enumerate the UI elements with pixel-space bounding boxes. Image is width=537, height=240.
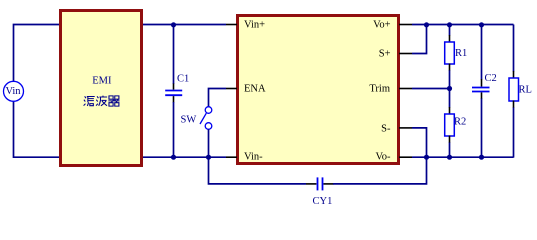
wire: left rail top (source to EMI) — [14, 25, 60, 82]
svg-text:EMI: EMI — [92, 76, 112, 87]
svg-text:S-: S- — [381, 124, 391, 135]
capacitor CY1 — [306, 183, 316, 185]
pin stub Vin- — [226, 156, 237, 158]
node: S- on Vo- rail — [424, 155, 429, 160]
svg-text:Vo+: Vo+ — [373, 20, 390, 31]
wire: Vo+ rail — [412, 24, 514, 26]
svg-text:S+: S+ — [379, 49, 391, 60]
node: R1 top — [447, 22, 452, 27]
pin stub Vo+ — [399, 24, 412, 26]
DC/DC converter box U1 — [238, 16, 399, 164]
EMI filter box — [61, 11, 142, 166]
wire: switch to bottom rail — [208, 129, 210, 157]
pin stub Trim — [399, 88, 412, 90]
wire: ENA to switch — [209, 89, 227, 107]
node: C2 bottom — [479, 155, 484, 160]
node: S+ on Vo+ rail — [424, 22, 429, 27]
resistor R2 — [449, 89, 451, 108]
svg-text:C2: C2 — [485, 73, 497, 84]
node: SW bottom junction — [206, 155, 211, 160]
svg-text:RL: RL — [519, 85, 532, 96]
svg-text:Vin: Vin — [5, 86, 21, 97]
pin stub ENA — [226, 88, 237, 90]
node: divider mid — [447, 86, 452, 91]
svg-text:Vo-: Vo- — [376, 152, 391, 163]
label 滤波器 (drawn strokes) — [84, 96, 120, 107]
pin stub S- — [399, 127, 412, 129]
wire: EMI out top to converter — [143, 24, 226, 26]
switch SW — [205, 107, 212, 114]
node: C1 top junction — [171, 22, 176, 27]
svg-text:CY1: CY1 — [313, 196, 333, 207]
pin stub Vo- — [399, 156, 412, 158]
wire: CY1 loop left — [209, 157, 307, 184]
wire: EMI out bottom to converter — [143, 156, 226, 158]
svg-text:Trim: Trim — [369, 84, 390, 95]
svg-text:Vin-: Vin- — [244, 152, 263, 163]
node: R2 bottom — [447, 155, 452, 160]
wire: Trim to divider — [412, 88, 450, 90]
capacitor C2 — [481, 25, 483, 80]
wire: Vo- rail — [412, 156, 514, 158]
wire: S- link — [412, 128, 427, 158]
voltage source Vin — [4, 81, 24, 101]
node: C1 bottom junction — [171, 155, 176, 160]
load resistor RL — [513, 25, 515, 72]
svg-text:SW: SW — [181, 115, 197, 126]
pin stub S+ — [399, 53, 412, 55]
wire: CY1 loop right — [333, 158, 427, 184]
svg-text:R1: R1 — [455, 48, 467, 59]
resistor R1 — [449, 25, 451, 36]
svg-text:R2: R2 — [454, 117, 466, 128]
wire: left rail bottom — [14, 102, 60, 158]
capacitor C1 — [173, 25, 175, 85]
wire: S+ link — [412, 25, 427, 54]
svg-text:Vin+: Vin+ — [244, 20, 265, 31]
svg-text:ENA: ENA — [244, 84, 266, 95]
node: C2 top — [479, 22, 484, 27]
svg-text:C1: C1 — [177, 74, 189, 85]
pin stub Vin+ — [226, 24, 237, 26]
